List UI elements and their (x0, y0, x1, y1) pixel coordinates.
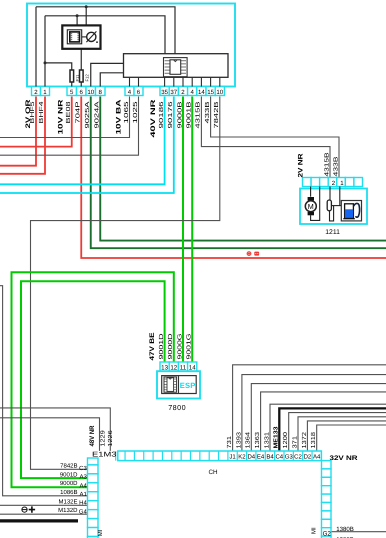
svg-text:K2: K2 (238, 454, 246, 461)
7800 ESP module box (157, 371, 200, 398)
wire 1200 (289, 413, 386, 451)
svg-text:1372: 1372 (301, 432, 308, 449)
svg-text:C4: C4 (275, 454, 283, 461)
svg-text:MI: MI (311, 527, 318, 534)
junction dots (44, 5, 88, 64)
svg-text:10: 10 (216, 89, 223, 96)
svg-text:32V NR: 32V NR (330, 455, 358, 462)
wire 9024A dark green (100, 97, 386, 241)
1211 fuel pump motor (311, 187, 320, 221)
strip pin letters (229, 454, 321, 461)
svg-text:9000D: 9000D (60, 480, 78, 487)
svg-text:433B: 433B (204, 101, 211, 123)
wire 1380B (331, 531, 386, 533)
svg-text:10: 10 (87, 89, 94, 96)
wire relay coil feeds (77, 7, 86, 26)
svg-text:37: 37 (170, 89, 177, 96)
svg-text:C2: C2 (294, 454, 302, 461)
svg-text:MI: MI (97, 529, 104, 536)
7800 pin row (160, 362, 197, 371)
svg-text:M: M (308, 202, 314, 211)
wire 371 (298, 417, 386, 451)
svg-text:A3: A3 (79, 474, 87, 481)
connector pins 5 6 10 8 (67, 87, 105, 96)
svg-text:1226: 1226 (107, 429, 114, 446)
svg-text:9001G: 9001G (186, 333, 193, 360)
wire 4315B (201, 97, 330, 178)
svg-text:10V NR: 10V NR (58, 99, 65, 134)
svg-text:7842B: 7842B (213, 101, 220, 128)
wire BHF4 red (0, 97, 45, 174)
wire 1065 (0, 97, 130, 138)
svg-text:433B: 433B (332, 156, 339, 176)
svg-text:48V NR: 48V NR (89, 425, 96, 446)
E1M3 vertical column (88, 458, 99, 538)
ground symbol (22, 506, 35, 512)
wire 90186 cyan (0, 97, 165, 185)
svg-text:1393: 1393 (235, 431, 242, 448)
double relay (62, 25, 100, 48)
wire 1086B (0, 286, 88, 496)
svg-text:1025: 1025 (132, 100, 139, 123)
svg-text:H4: H4 (79, 500, 87, 507)
wire 1229 (0, 418, 100, 451)
engine ECU connector box (124, 54, 229, 78)
wire 90176 cyan (0, 97, 174, 194)
svg-text:371: 371 (291, 436, 298, 449)
wire 9001B / 9001G green (191, 97, 193, 363)
wire pin1 to bus2 (44, 16, 46, 87)
svg-text:2V NR: 2V NR (298, 153, 305, 177)
pin numbers top strip (34, 89, 223, 96)
ECU IC symbol (164, 58, 188, 77)
ground bus bar (0, 519, 78, 522)
svg-text:M132E: M132E (58, 498, 77, 505)
svg-text:1331: 1331 (263, 432, 270, 449)
svg-text:15: 15 (207, 89, 214, 96)
svg-text:35: 35 (161, 89, 168, 96)
svg-text:1364: 1364 (245, 431, 252, 448)
svg-text:47V BE: 47V BE (149, 332, 156, 361)
ECU bottom pin stubs (130, 77, 220, 86)
svg-text:CH: CH (209, 469, 219, 476)
svg-text:4315B: 4315B (323, 152, 330, 176)
wire 1363 (261, 392, 386, 451)
svg-text:ESP: ESP (180, 381, 196, 390)
wire 9025A dark green (91, 97, 386, 249)
wire 1393 (242, 375, 386, 451)
svg-text:A1: A1 (79, 491, 87, 498)
wire branch to fuse F11 (45, 63, 72, 70)
wire 7842B (31, 97, 220, 470)
svg-text:B4: B4 (266, 454, 274, 461)
wire pin8 to ECU left (100, 73, 123, 87)
7800 IC symbol (164, 377, 177, 392)
1211 body box (300, 189, 367, 225)
E1M3 pin letters (79, 465, 88, 516)
svg-text:9001D: 9001D (158, 334, 165, 360)
wire relay to fuse F12 to pin6 (80, 49, 82, 87)
bus2 wire to ECU (45, 16, 165, 54)
svg-text:14: 14 (198, 89, 205, 96)
wire BHF5 red (0, 97, 36, 166)
wire fuse F11 to pin5 (71, 82, 73, 87)
wire 704P red (81, 97, 386, 259)
svg-text:E4: E4 (257, 454, 265, 461)
wire 9001D green (21, 281, 165, 478)
svg-text:9000D: 9000D (167, 334, 174, 360)
svg-text:M132D: M132D (58, 507, 78, 514)
CH vertical column (322, 461, 332, 538)
wire M132D (0, 513, 88, 515)
wire 1318 (317, 425, 386, 451)
1211 level sensor (330, 187, 342, 221)
fuse F11 (70, 70, 74, 82)
svg-text:40V NR: 40V NR (150, 99, 157, 137)
wire M132E (0, 504, 88, 506)
wire 9000B / 9000G green (182, 97, 184, 363)
svg-text:1086B: 1086B (60, 489, 77, 496)
svg-text:1065: 1065 (123, 100, 130, 123)
svg-text:G2: G2 (323, 530, 332, 537)
svg-text:10V BA: 10V BA (116, 99, 123, 134)
svg-text:9001D: 9001D (60, 472, 78, 479)
svg-text:A4: A4 (79, 483, 87, 490)
svg-text:1380B: 1380B (336, 526, 354, 533)
svg-text:ME133: ME133 (273, 426, 280, 449)
svg-text:F12: F12 (85, 74, 90, 82)
connector pins 4 6 (125, 87, 143, 96)
svg-text:1211: 1211 (325, 229, 340, 236)
svg-text:D2: D2 (304, 454, 312, 461)
wire pin2 to bus1 (35, 7, 37, 87)
E1M3 wire labels (58, 463, 78, 515)
svg-text:7800: 7800 (168, 403, 186, 412)
component 1211 pin row (303, 178, 363, 187)
splice symbols red (247, 252, 251, 256)
fuse F12 (80, 70, 84, 82)
wire 433B (211, 97, 339, 178)
svg-text:A4: A4 (313, 454, 321, 461)
wire 1372 (307, 421, 386, 451)
wire 1226 (0, 408, 110, 451)
svg-text:C3: C3 (79, 465, 87, 472)
1211 fuel pump icon (341, 201, 361, 221)
svg-text:G4: G4 (79, 509, 88, 516)
svg-text:4315B: 4315B (195, 101, 202, 128)
svg-text:9000G: 9000G (176, 333, 183, 360)
wire 1025 (0, 97, 139, 156)
svg-text:731: 731 (226, 436, 233, 449)
svg-text:1363: 1363 (254, 431, 261, 448)
svg-text:1229: 1229 (99, 430, 106, 447)
wire 9000D green (12, 272, 174, 487)
svg-text:1200: 1200 (282, 431, 289, 448)
svg-text:4: 4 (191, 89, 195, 96)
svg-text:7842B: 7842B (60, 463, 77, 470)
wire BE08 red (0, 97, 72, 147)
wire 1364 (251, 384, 386, 451)
E1M3-CH horizontal strip (118, 451, 322, 461)
connector pins 35 37 2 4 14 15 10 (160, 87, 224, 96)
wire ME133 (279, 408, 386, 451)
svg-text:1318: 1318 (310, 431, 317, 448)
svg-text:J1: J1 (229, 454, 236, 461)
connector pins 2 1 (32, 87, 50, 96)
svg-text:D4: D4 (247, 454, 255, 461)
svg-text:G3: G3 (285, 454, 294, 461)
wire pin10 to ECU left (91, 63, 124, 86)
wire 1331 (270, 404, 386, 451)
bus1 wire to ECU (36, 7, 175, 54)
fuse/relay unit outline (27, 4, 235, 87)
wire 731 (233, 365, 386, 451)
